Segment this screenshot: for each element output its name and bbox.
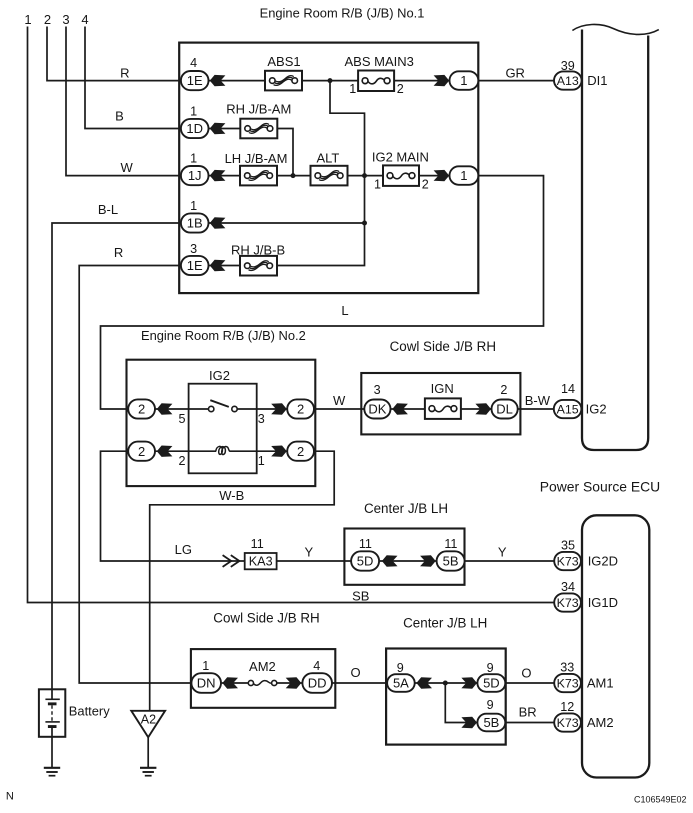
svg-text:1: 1 (460, 73, 467, 88)
arrow to DL (475, 403, 491, 414)
svg-text:1: 1 (349, 82, 356, 96)
svg-text:O: O (351, 665, 361, 680)
connector K73 (pin 35) (554, 552, 581, 570)
torn edge wave at top of ECU column (572, 24, 658, 34)
connector 2 (relay pin 5) (128, 399, 155, 418)
svg-text:B-W: B-W (525, 393, 551, 408)
svg-text:IG1D: IG1D (588, 595, 618, 610)
svg-text:2: 2 (397, 82, 404, 96)
svg-text:Cowl Side J/B RH: Cowl Side J/B RH (213, 611, 319, 626)
connector DL (pin 2) (492, 400, 518, 419)
arrow at 1D (210, 123, 226, 134)
svg-text:4: 4 (81, 12, 88, 27)
wire AM2 fuse to DD / O row / to AM1 (277, 682, 568, 684)
svg-text:Y: Y (304, 544, 313, 559)
arrow to relay pin 1 connector (271, 446, 287, 457)
svg-text:5B: 5B (443, 554, 459, 569)
svg-text:A2: A2 (141, 713, 156, 727)
ground point A2 triangle (131, 711, 165, 737)
connector 5D (pin 9) (477, 674, 505, 692)
svg-text:B-L: B-L (98, 202, 118, 217)
connector 1E (pin 3) (181, 256, 209, 275)
relay IG2 inner box (189, 384, 257, 474)
svg-text:RH J/B-AM: RH J/B-AM (226, 102, 291, 117)
connector 1J (pin 1) (181, 166, 209, 185)
svg-text:K73: K73 (557, 716, 579, 730)
arrow at 5D upper (382, 555, 398, 566)
arrow to 5B upper (420, 555, 436, 566)
connector A13 (pin 39) (554, 71, 582, 89)
svg-text:12: 12 (560, 700, 574, 714)
svg-text:Y: Y (498, 544, 507, 559)
svg-text:9: 9 (487, 698, 494, 712)
relay IG2 switch blade (210, 400, 229, 407)
svg-text:11: 11 (251, 537, 264, 551)
ECU block Power Source ECU (582, 515, 649, 777)
arrow at 1B (210, 217, 226, 228)
svg-text:1: 1 (190, 104, 197, 118)
svg-text:1J: 1J (188, 168, 202, 183)
svg-text:B: B (115, 109, 124, 124)
wire B-L to 1B / down to battery (52, 223, 365, 690)
connector K73 (pin 33) (554, 674, 581, 692)
svg-text:3: 3 (190, 242, 197, 256)
svg-text:IG2: IG2 (209, 368, 230, 383)
connector 5A (pin 9) (387, 674, 415, 692)
arrow to DD (286, 677, 302, 688)
fuse LH J/B-AM (240, 166, 277, 186)
arrow at 1E(4) (210, 75, 226, 86)
wire lead 1 / SB to IG1D (28, 27, 569, 603)
arrow to 5B lower (461, 717, 477, 728)
connector K73 (pin 12) (554, 713, 581, 731)
svg-text:1: 1 (374, 177, 381, 191)
arrow at DN (222, 677, 238, 688)
svg-text:DD: DD (308, 676, 327, 691)
relay IG2 coil (216, 446, 230, 454)
svg-text:Battery: Battery (69, 704, 110, 719)
svg-text:ABS MAIN3: ABS MAIN3 (345, 54, 414, 69)
svg-text:K73: K73 (557, 676, 579, 690)
connector A15 (pin 14) (554, 400, 582, 418)
svg-text:AM1: AM1 (587, 676, 614, 691)
svg-text:AM2: AM2 (249, 659, 276, 674)
arrow at DK (392, 403, 408, 414)
wire ABS MAIN3 branch bus (277, 81, 365, 266)
arrow to output 1 (GR) (434, 75, 450, 86)
arrow at 5A (416, 677, 432, 688)
svg-text:DI1: DI1 (587, 73, 607, 88)
svg-text:IG2D: IG2D (588, 554, 618, 569)
connector 5B (pin 11) (437, 551, 465, 570)
wire A2 to ground (147, 737, 149, 767)
svg-text:RH J/B-B: RH J/B-B (231, 242, 285, 257)
svg-text:A15: A15 (557, 402, 579, 416)
svg-text:2: 2 (138, 444, 145, 459)
arrow at 1J (210, 170, 226, 181)
svg-text:IG2: IG2 (586, 402, 607, 417)
svg-text:9: 9 (487, 661, 494, 675)
ground (battery) (44, 768, 60, 776)
svg-text:N: N (6, 791, 14, 803)
junction block Center J/B LH (upper) (344, 529, 464, 585)
connector 5B (pin 9) (477, 714, 505, 732)
svg-text:11: 11 (359, 537, 372, 551)
arrow to output 1 (IG2 MAIN) (434, 170, 450, 181)
svg-text:1B: 1B (187, 216, 203, 231)
connector arrows before KA3 (223, 555, 240, 567)
svg-text:LH J/B-AM: LH J/B-AM (225, 151, 288, 166)
svg-text:C106549E02: C106549E02 (634, 794, 687, 804)
svg-text:2: 2 (422, 177, 429, 191)
fuse RH J/B-B (240, 256, 277, 276)
battery (39, 689, 65, 767)
svg-text:14: 14 (561, 382, 575, 396)
svg-text:5A: 5A (393, 676, 409, 691)
wire RH J/B-AM branch to 1J row (277, 129, 293, 176)
svg-text:3: 3 (374, 383, 381, 397)
svg-text:ABS1: ABS1 (267, 54, 300, 69)
svg-text:11: 11 (444, 537, 457, 551)
svg-text:1: 1 (190, 151, 197, 165)
svg-text:R: R (120, 65, 129, 80)
junction block Center J/B LH (lower) (386, 649, 506, 745)
arrow to 5D lower (461, 677, 477, 688)
svg-text:1: 1 (202, 659, 209, 673)
svg-text:DL: DL (496, 402, 513, 417)
arrow at relay pin 2 connector (157, 446, 173, 457)
junction bus at 1B row (362, 221, 367, 226)
svg-text:LG: LG (175, 542, 192, 557)
svg-text:IGN: IGN (431, 381, 454, 396)
junction bus at 1J row (362, 173, 367, 178)
junction RH J/B-AM branch at 1J row (291, 173, 296, 178)
svg-text:O: O (521, 665, 531, 680)
svg-text:1D: 1D (186, 121, 203, 136)
ground (A2) (140, 768, 156, 776)
svg-text:1E: 1E (187, 258, 203, 273)
connector KA3 (pin 11) (245, 553, 277, 569)
svg-text:35: 35 (561, 538, 575, 552)
fuse IG2 MAIN (383, 165, 419, 186)
svg-text:1E: 1E (187, 73, 203, 88)
wire relay pin 1 / W-B down to A2 (150, 451, 335, 710)
svg-text:ALT: ALT (316, 150, 339, 165)
svg-text:2: 2 (297, 402, 304, 417)
svg-text:2: 2 (138, 402, 145, 417)
fuse ABS1 (265, 71, 302, 91)
fuse AM2 (open style) (248, 680, 277, 685)
svg-text:A13: A13 (557, 74, 579, 88)
fuse IGN (425, 398, 461, 419)
connector 2 (relay pin 2) (128, 442, 155, 461)
connector 5D (pin 11) (351, 551, 379, 570)
connector 1B (pin 1) (181, 213, 209, 232)
svg-text:3: 3 (62, 12, 69, 27)
svg-text:2: 2 (178, 454, 185, 468)
wire R to 1E(3) / down to DN (79, 266, 249, 684)
junction 5A branch (443, 681, 448, 686)
junction block Cowl Side J/B RH (AM2) (191, 649, 335, 708)
svg-text:Center J/B LH: Center J/B LH (403, 616, 487, 631)
connector K73 (pin 34) (554, 593, 581, 611)
svg-text:1: 1 (258, 454, 265, 468)
svg-text:1: 1 (190, 199, 197, 213)
svg-text:AM2: AM2 (587, 715, 614, 730)
junction ABS1/ABS MAIN3 (328, 78, 333, 83)
connector 1E (pin 4) (181, 71, 209, 90)
wire lead 3 / W to 1J / L to relay pin 5 (66, 27, 544, 410)
connector DN (pin 1) (191, 673, 221, 693)
svg-text:R: R (114, 245, 123, 260)
wire relay pin 2 / LG / Y row to IG2D (101, 451, 569, 561)
svg-text:K73: K73 (557, 596, 579, 610)
svg-text:5D: 5D (357, 554, 374, 569)
connector 1 (IG2 MAIN output) (450, 166, 479, 185)
ECU connector column DI1/IG2 (torn top) (582, 30, 648, 451)
svg-text:Power Source ECU: Power Source ECU (540, 478, 660, 494)
svg-text:K73: K73 (557, 554, 579, 568)
svg-text:1: 1 (460, 168, 467, 183)
svg-text:KA3: KA3 (249, 555, 273, 569)
connector 1 (GR output) (450, 71, 479, 90)
svg-text:Engine Room R/B (J/B) No.1: Engine Room R/B (J/B) No.1 (260, 6, 425, 21)
svg-text:39: 39 (561, 59, 575, 73)
svg-text:5: 5 (178, 412, 185, 426)
wire lead 4 / B to 1D (85, 27, 277, 129)
svg-text:Cowl Side J/B RH: Cowl Side J/B RH (390, 339, 496, 354)
svg-text:W: W (333, 393, 346, 408)
junction block Engine Room R/B (J/B) No.2 (127, 360, 316, 486)
svg-text:IG2 MAIN: IG2 MAIN (372, 149, 429, 164)
connector DK (pin 3) (364, 400, 390, 419)
connector 2 (relay pin 1) (287, 442, 314, 461)
svg-text:34: 34 (561, 580, 575, 594)
connector 2 (relay pin 3) (287, 399, 314, 418)
relay IG2 switch contact circles (209, 406, 238, 411)
fuse RH J/B-AM (240, 119, 277, 139)
arrow to relay pin 3 connector (271, 403, 287, 414)
svg-text:SB: SB (352, 588, 369, 603)
svg-text:Engine Room R/B (J/B) No.2: Engine Room R/B (J/B) No.2 (141, 328, 306, 343)
svg-text:3: 3 (258, 412, 265, 426)
svg-text:5B: 5B (483, 715, 499, 730)
connector DD (pin 4) (302, 673, 332, 693)
svg-text:DK: DK (368, 402, 386, 417)
fuse ALT (311, 166, 348, 186)
connector 1D (pin 1) (181, 119, 209, 138)
svg-text:W-B: W-B (219, 488, 244, 503)
junction block Cowl Side J/B RH (IGN) (361, 373, 520, 434)
svg-text:W: W (121, 160, 134, 175)
svg-text:DN: DN (197, 676, 216, 691)
svg-text:2: 2 (297, 444, 304, 459)
svg-text:Center J/B LH: Center J/B LH (364, 501, 448, 516)
wire relay pin 3 / W / IGN row / B-W to A15 (237, 408, 568, 410)
wire lead 2 / R to 1E / GR to A13 (47, 27, 568, 81)
svg-text:5D: 5D (483, 676, 500, 691)
svg-text:4: 4 (313, 659, 320, 673)
svg-text:33: 33 (560, 661, 574, 675)
junction block Engine Room R/B (J/B) No.1 (179, 43, 478, 294)
svg-text:GR: GR (505, 65, 525, 80)
fuse ABS MAIN3 (358, 71, 394, 92)
svg-text:BR: BR (519, 705, 537, 720)
svg-text:L: L (341, 303, 348, 318)
svg-text:1: 1 (24, 12, 31, 27)
svg-text:2: 2 (500, 383, 507, 397)
arrow at 1E(3) (210, 260, 226, 271)
wire 5B branch / BR to AM2 (445, 683, 568, 723)
svg-text:2: 2 (44, 12, 51, 27)
svg-text:4: 4 (190, 56, 197, 70)
svg-text:9: 9 (397, 661, 404, 675)
arrow at relay pin 5 connector (157, 403, 173, 414)
